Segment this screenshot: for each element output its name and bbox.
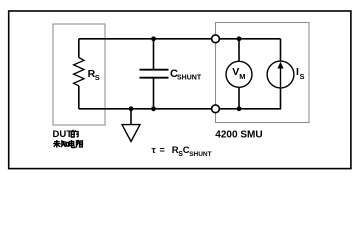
wire resistor top stub: [78, 39, 80, 58]
wire ground stub: [130, 109, 132, 124]
wire VM bottom stub: [238, 87, 240, 109]
voltmeter VM: [226, 61, 252, 87]
wire resistor bottom stub: [78, 86, 80, 109]
node junction bottom capacitor: [151, 106, 156, 111]
svg-text:=: =: [160, 145, 165, 155]
svg-text:DUT: DUT: [53, 129, 73, 140]
terminal bottom: [212, 105, 220, 113]
svg-text:S: S: [300, 72, 305, 81]
wire top bus: [79, 38, 281, 40]
wire capacitor bottom stub: [153, 79, 155, 109]
glyph 未: [53, 140, 60, 148]
glyph 知: [61, 140, 69, 147]
wire capacitor top stub: [153, 39, 155, 69]
glyph 电: [69, 140, 74, 148]
4200 SMU enclosure box: [216, 23, 310, 123]
glyph 阻: [77, 140, 84, 147]
DUT enclosure box: [53, 24, 105, 125]
capacitor CSHUNT: [140, 70, 169, 78]
svg-text:SHUNT: SHUNT: [177, 75, 202, 82]
current source IS: [267, 61, 294, 88]
svg-text:4200 SMU: 4200 SMU: [215, 129, 262, 140]
svg-text:SHUNT: SHUNT: [189, 151, 211, 158]
svg-text:S: S: [95, 73, 100, 82]
svg-text:M: M: [239, 72, 245, 81]
node junction bottom VM: [237, 106, 242, 111]
node junction top VM: [237, 36, 242, 41]
glyph 的: [71, 130, 78, 137]
current source arrow: [280, 64, 282, 88]
wire IS top stub: [280, 39, 282, 62]
wire VM top stub: [238, 39, 240, 62]
terminal top: [212, 35, 220, 43]
svg-text:V: V: [232, 66, 239, 78]
node junction top capacitor: [151, 36, 156, 41]
node junction bottom ground: [129, 106, 134, 111]
ground: [122, 125, 140, 142]
wire bottom bus: [79, 108, 281, 110]
wire IS bottom stub: [280, 88, 282, 109]
border frame: [9, 11, 351, 169]
resistor RS: [74, 58, 84, 86]
